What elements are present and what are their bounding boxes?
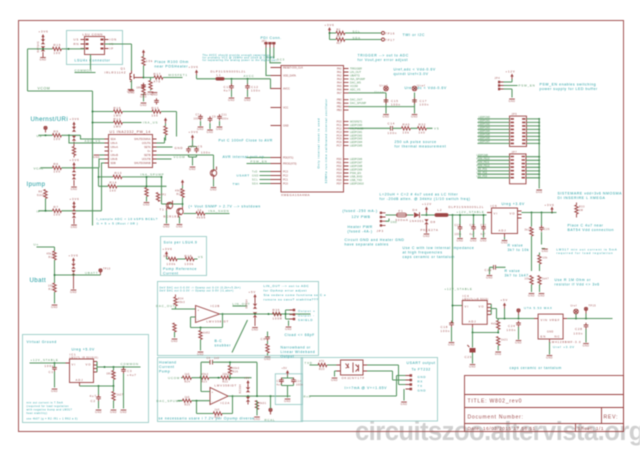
- resistor R16: [114, 110, 123, 113]
- fuse F1 500mA: [397, 213, 407, 217]
- svg-text:TP15: TP15: [589, 305, 597, 308]
- wire LIN_OUT: [220, 313, 311, 315]
- svg-text:(+ Vout SNMP > 2.7V --> shutdo: (+ Vout SNMP > 2.7V --> shutdown: [189, 205, 261, 209]
- svg-text:100: 100: [54, 51, 61, 55]
- svg-text:Narrowband or: Narrowband or: [281, 346, 312, 350]
- svg-text:Place C 4u7 near: Place C 4u7 near: [568, 224, 604, 228]
- svg-text:250 uA pulse source: 250 uA pulse source: [395, 140, 437, 144]
- svg-text:100R: 100R: [273, 316, 283, 320]
- test point TP14: [517, 309, 520, 315]
- svg-text:C1: C1: [49, 370, 54, 374]
- svg-text:INA_SPUMP: INA_SPUMP: [350, 77, 365, 81]
- wire ADJ row: [80, 385, 114, 387]
- svg-text:VO: VO: [479, 305, 485, 309]
- capacitor C12 100n: [247, 79, 249, 86]
- svg-text:CNY17F: CNY17F: [349, 376, 365, 380]
- transistor T3 AVR pull-up: [213, 155, 215, 170]
- svg-text:+3V6: +3V6: [69, 254, 79, 258]
- capacitor C4: [186, 147, 191, 153]
- svg-text:3k? to 10k: 3k? to 10k: [508, 248, 530, 252]
- svg-text:COMMON: COMMON: [75, 69, 93, 73]
- capacitor C6: [154, 98, 159, 104]
- svg-text:UIN+B: UIN+B: [111, 154, 119, 157]
- svg-text:TP13: TP13: [103, 268, 111, 271]
- svg-text:+5V: +5V: [282, 367, 288, 370]
- wire from LSU to Q1: [105, 44, 132, 71]
- svg-text:UIN-A: UIN-A: [111, 142, 118, 145]
- svg-text:1k27: 1k27: [117, 394, 124, 397]
- wires JP7 to bus: [526, 157, 539, 178]
- svg-text:C28: C28: [575, 327, 583, 331]
- svg-text:LEDPCM2: LEDPCM2: [350, 133, 363, 137]
- wire PSW_EN to PDI pin: [247, 158, 282, 164]
- svg-text:Output +: Output +: [298, 309, 316, 313]
- svg-text:PROG(X73): PROG(X73): [283, 163, 297, 166]
- svg-text:12V PWB: 12V PWB: [352, 215, 371, 219]
- svg-text:VCOM: VCOM: [174, 155, 186, 159]
- svg-text:R26: R26: [233, 371, 239, 374]
- svg-text:Uhernst/URi: Uhernst/URi: [31, 116, 69, 123]
- svg-text:VO: VO: [510, 212, 516, 216]
- svg-text:for -20dB atten. @ 34kHz (1/10: for -20dB atten. @ 34kHz (1/10 switch fr…: [380, 197, 471, 201]
- resistor R2 4k7: [336, 31, 345, 34]
- resistor R15 100: [53, 47, 62, 50]
- connector X1 LSU: [85, 37, 105, 55]
- resistor R27: [532, 213, 542, 227]
- svg-text:1k0: 1k0: [215, 409, 220, 412]
- svg-text:BAT54 Vdd connection: BAT54 Vdd connection: [568, 228, 615, 232]
- junction: [231, 78, 233, 80]
- resistor R23 45k3: [200, 376, 209, 379]
- connector JP1 PDI: [264, 42, 275, 48]
- svg-text:VIN VREF: VIN VREF: [541, 318, 561, 322]
- wire GND bus: [538, 119, 540, 189]
- svg-text:Output -: Output -: [298, 314, 315, 318]
- svg-text:100n: 100n: [574, 332, 584, 336]
- svg-text:Date: 16/03/2015 17.58.51: Date: 16/03/2015 17.58.51: [468, 426, 536, 431]
- test point TP16: [382, 32, 385, 35]
- svg-text:R6: R6: [54, 162, 59, 166]
- svg-text:4k7: 4k7: [337, 42, 342, 45]
- wire +3V6 out: [522, 212, 557, 214]
- svg-text:L2: L2: [438, 208, 443, 212]
- svg-text:-: -: [198, 318, 200, 322]
- capacitor C24 100n: [516, 321, 521, 327]
- svg-text:SC3: SC3: [277, 58, 285, 62]
- svg-text:PSW_EN: PSW_EN: [251, 159, 268, 163]
- resistor R44: [145, 188, 148, 197]
- svg-text:GND: GND: [283, 125, 289, 128]
- svg-text:10k: 10k: [525, 278, 531, 281]
- test point TP13: [99, 269, 102, 275]
- resistor R42: [113, 367, 115, 371]
- resistor R11 10k: [53, 283, 56, 292]
- svg-text:heat stability): heat stability): [27, 412, 48, 415]
- svg-text:C26: C26: [544, 228, 550, 231]
- svg-text:PSW_EN: PSW_EN: [519, 84, 536, 88]
- resistor R26 20k0: [228, 366, 231, 375]
- svg-text:100n: 100n: [420, 103, 430, 107]
- svg-text:TxD: TxD: [252, 171, 258, 174]
- wires into JP5: [478, 119, 510, 143]
- svg-text:DAC_OUT: DAC_OUT: [156, 304, 175, 308]
- capacitor C4 1n0: [210, 360, 213, 365]
- svg-text:for Vout,per error adjust: for Vout,per error adjust: [358, 58, 409, 62]
- svg-text:rumore su cavo? stabilita???: rumore su cavo? stabilita???: [264, 298, 319, 302]
- svg-text:AVCC: AVCC: [244, 74, 255, 78]
- svg-text:R18: R18: [185, 254, 193, 258]
- diode D1 BAT54S: [41, 39, 45, 44]
- svg-text:Current: Current: [163, 272, 179, 276]
- svg-text:100n: 100n: [201, 151, 211, 155]
- test point Uref2: [412, 86, 417, 91]
- svg-text:NC: NC: [555, 335, 561, 339]
- svg-text:PC7: PC7: [337, 145, 342, 148]
- svg-text:for OpAmp error adjust: for OpAmp error adjust: [264, 289, 308, 293]
- capacitor C18 100n: [449, 321, 454, 327]
- svg-text:LEDPCM10: LEDPCM10: [350, 181, 364, 185]
- capacitor C10 4u7: [231, 79, 233, 86]
- svg-text:Uref: Uref: [571, 305, 577, 308]
- svg-text:500mA: 500mA: [396, 218, 409, 222]
- resistor R38: [199, 331, 202, 340]
- svg-text:INA_US: INA_US: [143, 121, 158, 125]
- svg-text:+5V: +5V: [501, 298, 509, 302]
- svg-text:DAC_OUT: DAC_OUT: [350, 98, 363, 102]
- svg-text:VI: VI: [72, 363, 76, 367]
- svg-text:C14: C14: [388, 122, 396, 126]
- resistor R10 45k3: [53, 251, 56, 260]
- svg-text:Document Number:: Document Number:: [468, 415, 524, 421]
- svg-text:Solo per LSU4.9: Solo per LSU4.9: [164, 241, 198, 245]
- svg-text:PB3: PB3: [337, 109, 342, 112]
- +5V output: [491, 304, 538, 319]
- svg-text:EN: EN: [541, 335, 547, 339]
- svg-text:100k: 100k: [167, 262, 176, 266]
- wire PDI data: [266, 48, 281, 76]
- svg-text:V-: V-: [111, 150, 114, 153]
- svg-text:ADJ: ADJ: [76, 378, 84, 382]
- resistor R20 4k99: [196, 212, 205, 215]
- svg-text:Uref,adc < Vdd-0.6V: Uref,adc < Vdd-0.6V: [394, 68, 436, 72]
- svg-text:1k82: 1k82: [203, 332, 210, 335]
- svg-text:LIN_OUT: LIN_OUT: [350, 70, 361, 74]
- svg-text:U?A 5.50 MAX: U?A 5.50 MAX: [524, 306, 553, 310]
- svg-text:L1: L1: [217, 73, 222, 77]
- svg-text:PD7: PD7: [337, 182, 342, 185]
- svg-text:100n: 100n: [507, 328, 517, 332]
- svg-text:snubber: snubber: [215, 344, 232, 348]
- svg-text:C2: C2: [91, 399, 96, 403]
- svg-text:MOSFET1: MOSFET1: [350, 119, 363, 123]
- svg-text:10k: 10k: [146, 59, 153, 63]
- svg-text:3k16: 3k16: [525, 229, 532, 232]
- capacitor C19: [458, 225, 463, 231]
- test point Uref1: [384, 86, 389, 91]
- svg-text:GND: GND: [418, 389, 427, 393]
- svg-text:DAC_MS: DAC_MS: [350, 80, 361, 84]
- resistor R28 10k: [538, 255, 541, 264]
- resistor R18b 100k: [185, 257, 194, 260]
- svg-text:+5V: +5V: [244, 377, 250, 380]
- connector SV1: [406, 374, 413, 390]
- svg-text:UBATT2: UBATT2: [350, 74, 360, 78]
- svg-text:Uref: Uref: [380, 84, 389, 88]
- capacitor C20: [471, 225, 476, 231]
- svg-text:4k02: 4k02: [491, 323, 498, 326]
- right pin stubs group C: [344, 121, 349, 145]
- resistor R12: [114, 121, 123, 124]
- svg-text:100: 100: [54, 170, 61, 174]
- svg-text:C11: C11: [222, 114, 228, 117]
- feedback loop: [191, 314, 223, 328]
- svg-text:1k0: 1k0: [185, 396, 190, 399]
- svg-text:D4: D4: [413, 208, 418, 212]
- svg-text:SHUTDOWNB: SHUTDOWNB: [134, 162, 151, 165]
- svg-text:Uref +3.0V: Uref +3.0V: [553, 345, 575, 349]
- svg-text:C4: C4: [207, 357, 211, 360]
- resistor R20b 470: [318, 363, 327, 366]
- svg-text:SDA: SDA: [111, 138, 116, 141]
- svg-text:resistor if Vdd <> 3v6: resistor if Vdd <> 3v6: [555, 283, 600, 287]
- svg-text:GND: GND: [252, 175, 259, 178]
- clamp stack D5 BAV99: [72, 122, 75, 128]
- svg-text:Ureg +5.0V: Ureg +5.0V: [72, 348, 95, 352]
- svg-text:TP17: TP17: [385, 38, 395, 42]
- svg-text:R12: R12: [114, 117, 122, 121]
- svg-text:U1 INA2332_PW_14: U1 INA2332_PW_14: [110, 130, 151, 134]
- svg-text:+3V6: +3V6: [39, 30, 49, 34]
- transistor T1 BCR183: [166, 202, 172, 208]
- svg-text:100: 100: [54, 213, 61, 217]
- svg-text:RN: RN: [74, 42, 80, 46]
- wire Uref: [349, 93, 415, 107]
- junction gate: [143, 77, 145, 79]
- svg-text:+: +: [212, 390, 215, 394]
- svg-text:LEDPCM0: LEDPCM0: [350, 123, 363, 127]
- svg-text:LEDPCM6: LEDPCM6: [350, 157, 363, 161]
- svg-text:DI INSERIRE L XMEGA: DI INSERIRE L XMEGA: [558, 196, 606, 200]
- capacitor C22: [494, 265, 496, 270]
- svg-text:+12V_STABLE: +12V_STABLE: [31, 358, 59, 362]
- svg-text:V+: V+: [147, 150, 151, 153]
- svg-text:DLP31SN900SL2L: DLP31SN900SL2L: [449, 205, 485, 209]
- svg-text:TWI or I2C: TWI or I2C: [403, 33, 425, 37]
- capacitor C14 100n: [391, 126, 393, 131]
- svg-text:R9: R9: [54, 130, 59, 134]
- svg-text:SCL: SCL: [252, 179, 258, 182]
- svg-text:TITLE: W802_rev0: TITLE: W802_rev0: [468, 399, 523, 405]
- resistor R25 1k0: [183, 399, 192, 402]
- wire 12V: [386, 215, 487, 221]
- capacitor C21: [481, 225, 486, 231]
- ground: [140, 103, 147, 107]
- svg-text:INA_SPUMP: INA_SPUMP: [141, 172, 165, 176]
- svg-text:R32: R32: [419, 122, 427, 126]
- test point TP17: [382, 38, 385, 41]
- svg-text:0mV DAC out 0-3.0V -> Opamp ou: 0mV DAC out 0-3.0V -> Opamp out 0-5V (/1…: [160, 290, 234, 293]
- svg-text:C5: C5: [198, 145, 203, 149]
- svg-text:4k7: 4k7: [337, 35, 342, 38]
- svg-text:1k0: 1k0: [110, 189, 117, 193]
- svg-text:+3V6: +3V6: [545, 203, 555, 207]
- resistor R30: [538, 276, 541, 285]
- svg-text:XMEGA16A4MA: XMEGA16A4MA: [281, 193, 310, 197]
- capacitor C9 100n: [208, 116, 213, 122]
- svg-text:100n: 100n: [388, 131, 398, 135]
- svg-text:+12V_STABLE: +12V_STABLE: [457, 210, 485, 214]
- wires into JP7: [478, 157, 510, 178]
- resistor R27b snub: [255, 401, 258, 410]
- svg-text:SDA: SDA: [353, 36, 361, 40]
- svg-text:G = 5 + 5 (Rout / 0R ): G = 5 + 5 (Rout / 0R ): [97, 222, 139, 226]
- svg-text:45k3: 45k3: [202, 373, 209, 376]
- svg-text:1k21: 1k21: [501, 339, 508, 342]
- svg-text:TRIGGER: TRIGGER: [350, 67, 362, 71]
- svg-text:USART: USART: [237, 174, 250, 178]
- svg-text:(fused -250 mA-): (fused -250 mA-): [343, 209, 378, 213]
- svg-text:TRIGGER --> out to ADC: TRIGGER --> out to ADC: [358, 54, 409, 58]
- LSU section teal box: [67, 31, 123, 65]
- svg-text:+3V6: +3V6: [70, 158, 80, 162]
- svg-text:PWM_PE12: PWM_PE12: [477, 165, 491, 168]
- left pin stubs: [271, 68, 282, 184]
- svg-text:PC2: PC2: [283, 175, 288, 178]
- transistor T2: [177, 208, 183, 214]
- right pin stubs group B: [344, 100, 349, 110]
- svg-text:1k0: 1k0: [185, 373, 190, 376]
- svg-text:VCOM: VCOM: [38, 87, 51, 91]
- svg-text:+3V6: +3V6: [189, 65, 199, 69]
- svg-text:Pump: Pump: [159, 370, 170, 374]
- capacitor C28 100n: [584, 323, 589, 329]
- svg-text:GND: GND: [175, 146, 184, 150]
- svg-text:UOUTA: UOUTA: [142, 142, 151, 145]
- svg-text:JP5: JP5: [512, 113, 518, 116]
- svg-text:+12V: +12V: [506, 70, 516, 74]
- ground connector: [403, 389, 405, 401]
- svg-text:COMMON: COMMON: [121, 362, 139, 366]
- svg-text:LMV358IDT: LMV358IDT: [207, 319, 230, 323]
- svg-text:RX: RX: [418, 380, 424, 384]
- svg-text:Place R100 Ohm: Place R100 Ohm: [155, 60, 189, 64]
- svg-text:100n: 100n: [441, 329, 451, 333]
- svg-text:100n: 100n: [391, 103, 401, 107]
- resistor R8 61k9: [44, 190, 47, 199]
- svg-text:use 4k07 (g = R2 /R1 + 1 R62 a: use 4k07 (g = R2 /R1 + 1 R62 a 0): [27, 418, 78, 421]
- svg-text:R23: R23: [202, 380, 208, 383]
- svg-text:C22: C22: [481, 224, 487, 227]
- grounds: [457, 239, 464, 243]
- svg-text:SETB: SETB: [144, 154, 151, 157]
- svg-text:LEDPCM7: LEDPCM7: [479, 141, 491, 144]
- svg-text:LED_PD2: LED_PD2: [477, 171, 488, 174]
- svg-text:near POSHeater: near POSHeater: [155, 65, 189, 69]
- capacitor C3 4u7: [123, 367, 125, 369]
- IC6 LM4128: [538, 314, 563, 339]
- svg-text:Linear Wideband: Linear Wideband: [281, 350, 316, 354]
- svg-text:LM4128BMF-3.0: LM4128BMF-3.0: [550, 340, 582, 344]
- svg-text:VS: VS: [198, 255, 203, 259]
- capacitor C5: [194, 147, 199, 153]
- svg-text:LEDPCM1: LEDPCM1: [350, 130, 363, 134]
- ground pin V-: [93, 155, 100, 159]
- svg-text:Cload <= 68pF: Cload <= 68pF: [285, 333, 315, 337]
- ground opto: [335, 371, 337, 377]
- wire VCOM: [28, 49, 93, 226]
- svg-text:20k0: 20k0: [223, 373, 230, 376]
- svg-text:SDB: SDB: [111, 162, 116, 165]
- ground under Q1: [128, 91, 135, 95]
- svg-text:PSW_EN enables switching: PSW_EN enables switching: [540, 83, 597, 87]
- svg-text:UIN-B: UIN-B: [111, 158, 118, 161]
- svg-text:R13: R13: [115, 171, 123, 175]
- svg-text:VO: VO: [86, 363, 92, 367]
- resistor R4 10k: [142, 57, 145, 66]
- svg-text:T1: T1: [160, 208, 165, 212]
- svg-text:VS: VS: [434, 127, 439, 131]
- svg-text:D8: D8: [431, 220, 436, 224]
- svg-text:C8: C8: [261, 337, 266, 341]
- svg-text:DAC_SPUMP: DAC_SPUMP: [350, 101, 366, 105]
- svg-text:PA7: PA7: [337, 92, 342, 95]
- test point TP15: [584, 307, 587, 313]
- svg-text:Put C 100nF Close to AVR: Put C 100nF Close to AVR: [219, 139, 273, 143]
- svg-text:4k99: 4k99: [197, 216, 206, 220]
- svg-text:F1: F1: [399, 209, 404, 213]
- caps cluster above U1: [127, 90, 134, 94]
- svg-text:USART output: USART output: [407, 361, 436, 365]
- capacitor C17 100n: [412, 98, 417, 104]
- svg-text:LED_PD3: LED_PD3: [477, 175, 488, 178]
- test point RCAL: [269, 408, 272, 414]
- svg-text:ADJ: ADJ: [499, 229, 507, 233]
- svg-text:BZX84: BZX84: [246, 299, 249, 309]
- title block: [465, 376, 624, 432]
- svg-text:VCC: VCC: [283, 107, 288, 110]
- wire snubber pointer: [232, 320, 248, 353]
- optocoupler OK1 CNY17F: [341, 360, 364, 375]
- transistor Q1 IRLR3114Z: [130, 71, 144, 82]
- capacitor C26: [539, 225, 544, 231]
- resistor R29: [530, 276, 533, 285]
- svg-text:SISTEMARE vdd=3v6 NMOSMA: SISTEMARE vdd=3v6 NMOSMA: [558, 192, 623, 196]
- svg-text:at high frequencies: at high frequencies: [403, 251, 443, 255]
- svg-text:R35: R35: [273, 308, 281, 312]
- svg-text:4u7: 4u7: [277, 384, 283, 387]
- resistor R40 10k: [402, 127, 411, 130]
- svg-text:for thermal measurement: for thermal measurement: [395, 145, 447, 149]
- resistor R7 100: [53, 209, 62, 212]
- svg-text:100n: 100n: [194, 118, 201, 121]
- svg-text:caps ceramic or tantalum: caps ceramic or tantalum: [510, 366, 562, 370]
- resistor R35: [273, 312, 282, 315]
- resistor R13: [152, 110, 161, 113]
- svg-text:470: 470: [319, 360, 325, 363]
- svg-text:SHUTDOWNA: SHUTDOWNA: [134, 138, 151, 141]
- wires JP5 to bus: [527, 119, 540, 143]
- capacitor C8: [265, 335, 270, 341]
- svg-text:RESET-OOI_CLK: RESET-OOI_CLK: [283, 67, 303, 70]
- svg-text:Ubatt: Ubatt: [30, 277, 47, 284]
- svg-text:Only internal reset is used: Only internal reset is used: [317, 118, 321, 169]
- wires USART TWI: [260, 172, 282, 184]
- svg-text:Use C with low internal impeda: Use C with low internal impedance: [403, 246, 475, 250]
- resistor R41: [266, 344, 269, 353]
- svg-text:C9: C9: [212, 116, 216, 119]
- svg-text:R14: R14: [110, 181, 118, 185]
- svg-text:+: +: [198, 308, 201, 312]
